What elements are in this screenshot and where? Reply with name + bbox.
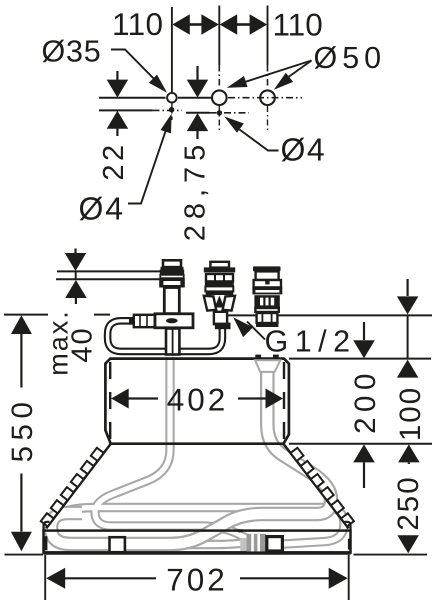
dimension 100 <box>407 279 409 296</box>
svg-text:40: 40 <box>67 326 99 362</box>
leader G1/2 <box>247 322 265 340</box>
dimension 402 ticks <box>109 362 111 442</box>
valve upper box <box>256 271 279 280</box>
dimension 110 left arrows <box>172 14 190 35</box>
centre line below middle circle <box>218 106 220 133</box>
svg-text:550: 550 <box>6 397 39 463</box>
compression nut on pipe <box>215 323 231 330</box>
chrome pipe U-loop <box>108 321 223 352</box>
connector stem through deck <box>214 312 227 324</box>
rib teeth right slope <box>291 448 354 527</box>
svg-text:G1/2: G1/2 <box>265 325 357 359</box>
mounting plane line right <box>224 314 432 316</box>
reference line y110 (22 offset) <box>99 109 153 111</box>
trapezoid body sides <box>46 444 348 529</box>
connector cone legs <box>204 296 235 311</box>
dimension 200 <box>363 322 365 340</box>
valve flange <box>254 280 281 287</box>
leader Ø35 <box>111 50 163 89</box>
mixer component cap <box>163 260 181 267</box>
leader Ø4 right <box>240 130 279 151</box>
hose tube A from mixer, left U-turn and loop <box>53 357 344 545</box>
base bottom extension lines <box>5 554 44 556</box>
hole dot Ø4 middle <box>217 110 222 115</box>
dimension 550 <box>11 315 32 334</box>
mixer neck <box>164 288 179 314</box>
hole dot Ø4 left <box>169 107 174 112</box>
mixer side nut <box>129 317 134 325</box>
valve mid section <box>252 287 282 294</box>
hose tube B from shut-off valve <box>51 372 331 544</box>
line C extension right <box>289 443 432 445</box>
hole centre line horizontal <box>99 97 166 99</box>
leader Ø4 left <box>128 124 168 204</box>
valve top bar <box>253 266 281 271</box>
dimension 110 right arrows <box>220 14 238 35</box>
deck top lines (max 40 clamping) <box>57 270 163 272</box>
mixer lower block <box>159 278 185 287</box>
valve bottom bar <box>256 323 278 327</box>
hose mark on base top <box>238 529 244 532</box>
valve body <box>256 296 279 306</box>
dimension 702 arrows <box>46 568 65 589</box>
dimension max.40 arrows <box>74 249 76 254</box>
reference line y112.7 (28,75 offset) <box>186 112 210 114</box>
svg-text:Ø35: Ø35 <box>42 35 102 69</box>
svg-text:702: 702 <box>166 562 228 598</box>
svg-text:28,75: 28,75 <box>179 139 211 242</box>
leader Ø50 middle circle <box>233 61 312 86</box>
clip square right <box>267 537 283 551</box>
svg-text:110: 110 <box>273 6 323 42</box>
connector body <box>206 274 233 281</box>
leader Ø50 right circle <box>280 61 312 84</box>
centre line below right circle <box>267 106 269 130</box>
svg-text:250: 250 <box>392 475 425 530</box>
hole circle Ø35 <box>167 93 177 103</box>
deck line B right extension <box>289 358 431 360</box>
base end lips <box>44 522 50 531</box>
hose bell into box <box>255 360 280 372</box>
base slot left <box>44 536 48 550</box>
svg-text:402: 402 <box>167 382 229 418</box>
connector top flange <box>204 267 235 272</box>
hose port collars on box top <box>255 355 261 359</box>
connector top box <box>210 262 229 268</box>
dimension 702 extension verticals <box>44 555 46 600</box>
rib teeth left slope <box>41 448 104 527</box>
svg-text:100: 100 <box>394 386 427 441</box>
hole circle Ø50 middle <box>212 90 227 105</box>
valve legs <box>257 313 278 323</box>
mixer upper block <box>160 270 184 276</box>
mixer body at deck <box>155 314 193 328</box>
mounting plane line left <box>4 314 48 316</box>
mixer collar band <box>161 267 184 270</box>
housing upper box <box>105 359 289 444</box>
extension line left hole centre <box>171 7 173 92</box>
mixer lower stem legs <box>166 329 179 355</box>
clip square left <box>110 537 125 552</box>
svg-text:Ø50: Ø50 <box>314 41 387 75</box>
dimension 22 arrows <box>116 71 118 80</box>
svg-text:200: 200 <box>349 368 382 434</box>
base slab <box>44 531 351 553</box>
hole circle Ø50 right <box>260 90 275 105</box>
dimension 28,75 arrows <box>196 66 198 80</box>
centre line below left circle <box>171 103 173 120</box>
connector bottom flange <box>206 291 234 295</box>
valve bottom flange <box>254 307 280 313</box>
extension line right hole centre <box>267 6 269 66</box>
svg-text:110: 110 <box>112 6 163 42</box>
hose fitting grey <box>240 538 247 551</box>
svg-text:22: 22 <box>98 141 130 180</box>
svg-text:Ø4: Ø4 <box>281 132 327 168</box>
svg-text:Ø4: Ø4 <box>79 191 125 227</box>
dimension 250 <box>398 444 420 462</box>
dimension 402 arrows <box>111 389 129 409</box>
extension line middle hole centre <box>218 6 220 66</box>
connector flange 2 <box>205 281 234 286</box>
base slot right <box>348 539 351 550</box>
